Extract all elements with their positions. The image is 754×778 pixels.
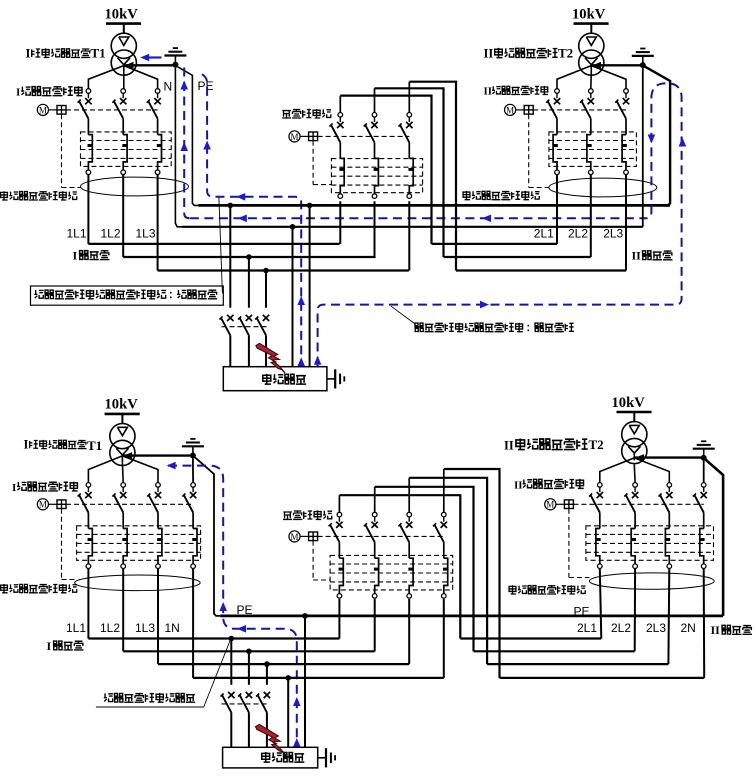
transformer T1 LV winding [111, 50, 136, 75]
label bus tie breaker bottom [283, 510, 332, 519]
wire tie b pole2 to bus [374, 599, 376, 651]
dashed linkage QF1 [66, 109, 158, 111]
wire load L2 bottom [248, 651, 250, 685]
svg-text:M: M [506, 105, 514, 115]
load breaker pole 3 [255, 315, 269, 367]
dashed aux tie to CT [313, 141, 331, 185]
wire fan T2 mid [590, 72, 593, 89]
wire load PE [309, 205, 311, 366]
bus 2L2 bottom [474, 650, 635, 652]
HV stub T1 bottom [121, 414, 123, 424]
blue arrow up PE path [203, 141, 211, 150]
tap dot load N bottom [285, 675, 291, 681]
transformer T1 bottom LV winding [110, 440, 135, 465]
blue arrow up first path load 1 [297, 296, 305, 305]
ground electrode T2 bottom [693, 441, 715, 461]
label 2N bottom [681, 621, 696, 635]
wire QF2 pole3 to bus 2L3 [625, 175, 627, 271]
blue arrow up PE riser bottom [219, 602, 227, 611]
10kV source label T2 bottom [612, 395, 646, 411]
tap dot load N [290, 224, 296, 230]
label II section transformer T2 bottom [504, 437, 604, 453]
wire T2 N drop [642, 68, 644, 227]
ground fault CT ellipse section I [81, 177, 189, 196]
HV stub T1 [123, 24, 125, 34]
svg-text:I: I [47, 639, 52, 653]
wire QF1b pole3 to bus [157, 569, 159, 665]
wire fan T1 right [124, 66, 158, 89]
HV stub T2 bottom [633, 412, 635, 422]
wire load L1 [229, 205, 231, 307]
tie b breaker pole 3 [398, 512, 413, 598]
label 1L3 [136, 226, 156, 240]
tap dot load L3 bottom [264, 661, 270, 667]
svg-text:M: M [290, 532, 298, 542]
svg-text:2L1: 2L1 [534, 226, 554, 240]
tie b top link 1 [339, 495, 460, 638]
svg-text:I: I [26, 46, 31, 60]
load breaker bottom pole 2 [238, 692, 252, 747]
motor operator M tie [289, 131, 318, 142]
breaker QF2b pole N [693, 483, 707, 569]
black arrow into T1 star [125, 62, 134, 69]
label 2L3 [603, 226, 623, 240]
blue arrow up bottom load 1 [293, 697, 301, 706]
bus 1N bottom [193, 677, 444, 679]
svg-text:II: II [504, 438, 514, 452]
svg-text:II: II [514, 479, 523, 491]
bus 1L2 bottom [123, 650, 375, 652]
label ground fault detection left-top [1, 191, 78, 200]
label I section bus [73, 249, 110, 263]
load breaker bottom pole 1 [221, 692, 235, 747]
tie top link 1 [340, 96, 431, 244]
wire T1b star to ground [122, 454, 190, 456]
blue arrow up second path load [314, 356, 322, 365]
tie b breaker pole 1 [329, 512, 344, 598]
svg-text:T2: T2 [558, 46, 573, 61]
blue path bottom via PE [168, 466, 297, 747]
breaker QF2b pole 3 [659, 483, 673, 569]
label PE bottom left [237, 603, 253, 617]
wire PE riser bottom left [194, 457, 220, 616]
tie b pole 4 riser [443, 469, 445, 512]
label PE top [198, 79, 214, 93]
wire fan T2b right [634, 458, 669, 483]
tap dot load L2 bottom [246, 649, 252, 655]
wire T2 PE drop [644, 66, 670, 205]
wire load L3 [265, 271, 267, 308]
wire T2b star to ground [634, 456, 701, 458]
dashed linkage tie [318, 135, 410, 137]
blue arrow up T2 riser [679, 138, 687, 147]
blue path first (normal) via PE riser [202, 74, 301, 366]
label 1L1 bottom [66, 621, 86, 635]
wire QF1b pole2 to bus [122, 569, 124, 652]
tie pole 1 riser [339, 96, 341, 113]
load equipment box bottom [223, 747, 318, 768]
note box first path [31, 286, 224, 305]
svg-text:II: II [632, 249, 642, 263]
leader first path note [219, 198, 223, 294]
black arrow into T1b star [124, 452, 133, 459]
blue path second via ground grid [318, 83, 682, 366]
bus 2L1 bottom [460, 637, 601, 639]
wire load N bottom [287, 678, 289, 747]
dashed linkage QF1b [66, 503, 193, 505]
label II section incoming breaker [484, 85, 548, 97]
transformer T1 HV winding [111, 33, 136, 58]
HV stub T2 [590, 24, 592, 34]
note second path [414, 323, 574, 332]
ground fault CT ellipse I bottom [75, 575, 201, 591]
ground fault CT ellipse section II [549, 178, 657, 197]
breaker QF1 pole 1 [78, 89, 93, 175]
bus 2L3 bottom [487, 663, 668, 665]
load ground [327, 369, 344, 388]
svg-text:10kV: 10kV [572, 6, 606, 22]
breaker QF1b pole 3 [147, 483, 162, 569]
load breaker bottom pole 3 [256, 692, 270, 747]
breaker QF2 pole 1 [546, 89, 560, 175]
svg-text:1L3: 1L3 [136, 226, 156, 240]
wire QF1b pole1 to bus [87, 569, 89, 639]
fault bolt bottom [255, 724, 286, 755]
svg-text:M: M [39, 500, 47, 510]
svg-text:2L2: 2L2 [611, 621, 631, 635]
label 2L3 bottom [646, 621, 666, 635]
wire QF2b pole1 to bus [600, 569, 602, 639]
wire load L1 bottom [230, 639, 232, 685]
svg-text:1L1: 1L1 [67, 226, 87, 240]
CT box tie bottom [330, 555, 453, 590]
svg-text:N: N [164, 79, 173, 93]
label I section bus bottom [47, 639, 84, 653]
svg-text:10kV: 10kV [105, 6, 139, 22]
label 2L1 [534, 226, 554, 240]
blue arrow up bottom load 2 [293, 738, 301, 747]
svg-text:2N: 2N [681, 621, 696, 635]
motor operator M QF1 [37, 104, 66, 115]
svg-text:II: II [711, 623, 721, 637]
svg-text:I: I [12, 482, 16, 494]
wire tie pole1 to bus 1L1 [339, 201, 341, 244]
dashed linkage QF2 [533, 109, 626, 111]
dashed aux QF2b to CT [569, 509, 590, 578]
svg-text:I: I [73, 249, 78, 263]
tap dot load L1 bottom [229, 636, 235, 642]
wire load L3 bottom [266, 664, 268, 685]
tap dot load PE [307, 203, 313, 209]
tap dot load PE bottom [302, 613, 308, 619]
svg-text:2L3: 2L3 [646, 621, 666, 635]
breaker QF1b pole N [182, 483, 197, 569]
wire fan T2 right [591, 66, 626, 89]
10kV source label T1 bottom [105, 397, 139, 413]
wire QF1b poleN to bus [192, 569, 194, 678]
bus PE top diagram [199, 204, 671, 207]
CT box section II [549, 132, 637, 167]
svg-text:I: I [16, 87, 20, 99]
load breaker pole 2 [238, 315, 252, 367]
label 1L1 [67, 226, 87, 240]
wire tie b pole4 to bus [443, 599, 445, 678]
label I section incoming breaker bottom [12, 482, 78, 494]
wire fan T2b mid [633, 464, 636, 482]
svg-text:M: M [39, 105, 47, 115]
transformer T2 HV winding [579, 33, 604, 58]
label II section bus bottom [711, 623, 752, 637]
dashed aux tie bottom to CT [313, 541, 330, 580]
wire fan T1 left [88, 66, 123, 89]
wire T1b neutral pole feed [192, 459, 194, 483]
label load equipment [263, 374, 306, 384]
tap dot load L1 [228, 203, 234, 209]
blue arrow up first path load 2 [297, 357, 305, 366]
breaker QF1b pole 2 [112, 483, 127, 569]
breaker QF2b pole 1 [589, 483, 603, 569]
label 2L2 [568, 226, 588, 240]
load breaker pole 1 [220, 315, 234, 367]
bus 2N bottom [500, 677, 705, 679]
wire tie b pole1 to bus [338, 599, 340, 639]
label I section incoming breaker [16, 86, 82, 98]
tap dot load L3 [263, 268, 269, 274]
bus PE bottom [220, 615, 723, 618]
tie b top link 3 [409, 478, 487, 664]
wire QF1 pole1 to bus 1L1 [87, 175, 89, 244]
label II section transformer T2 [484, 46, 574, 61]
breaker QF2 pole 2 [580, 89, 594, 175]
10kV bus bar T1 bottom [105, 413, 140, 416]
blue horizontal second collector [190, 217, 646, 219]
transformer T2 bottom LV winding [622, 438, 647, 463]
leader second path note [391, 306, 415, 323]
wire fan T1b right [122, 456, 158, 483]
breaker QF1 pole 2 [112, 89, 127, 175]
label II section bus top [632, 249, 673, 263]
svg-text:1L1: 1L1 [66, 621, 86, 635]
motor operator M QF1b [37, 499, 66, 510]
tie pole 3 riser [408, 82, 410, 113]
breaker QF1b pole 1 [78, 483, 93, 569]
svg-text:PE: PE [574, 605, 590, 619]
tie breaker pole 2 [364, 113, 379, 199]
tie b top link 4 [444, 469, 500, 678]
motor operator M tie bottom [289, 531, 318, 542]
bus 2L3 [456, 269, 626, 271]
label N [164, 79, 173, 93]
10kV bus bar T1 [106, 22, 141, 25]
blue arrow left collector 1 [238, 215, 247, 223]
tie b pole 3 riser [408, 478, 410, 513]
tie pole 2 riser [374, 88, 376, 112]
label PE bottom right [574, 605, 590, 619]
ground electrode T2 [632, 49, 654, 69]
wire tie b pole3 to bus [408, 599, 410, 664]
bus N top diagram [182, 226, 643, 228]
svg-text:1L2: 1L2 [101, 226, 121, 240]
label II section incoming breaker bottom [514, 479, 584, 491]
CT box section I [81, 132, 172, 167]
wire QF2 pole1 to bus 2L1 [556, 175, 558, 244]
ground electrode T1 [164, 48, 186, 68]
svg-text:T1: T1 [91, 45, 106, 60]
bus 1L3 bottom [158, 663, 409, 665]
tie b breaker pole 4 [433, 512, 448, 598]
svg-text:M: M [546, 500, 554, 510]
tie breaker pole 3 [399, 113, 414, 199]
blue arrow up N return 2 [180, 142, 188, 151]
tie b breaker pole 2 [364, 512, 379, 598]
CT box section II bottom [586, 526, 714, 561]
motor operator M QF2 [505, 104, 534, 115]
wire tie pole3 to bus 1L3 [408, 201, 410, 270]
blue path N return vertical [184, 68, 194, 219]
wire PE conductor [177, 66, 199, 205]
dashed linkage load breaker [222, 326, 268, 328]
blue arrow toward T1b star [167, 462, 176, 470]
tap dot load L2 [246, 254, 252, 260]
svg-text:1L3: 1L3 [135, 621, 155, 635]
blue arrow left first path [236, 193, 245, 201]
tie b pole 1 riser [338, 495, 340, 512]
blue arrow left bottom collector [237, 625, 246, 633]
blue arrow left collector 2 [482, 215, 491, 223]
tie breaker pole 1 [330, 113, 345, 199]
CT box tie [331, 159, 422, 193]
breaker QF2 pole 3 [615, 89, 629, 175]
tie top link 2 [375, 88, 444, 257]
blue arrow right second path [480, 301, 489, 309]
svg-text:T2: T2 [589, 437, 604, 452]
wire QF2b pole2 to bus [634, 569, 636, 652]
svg-text:2L2: 2L2 [568, 226, 588, 240]
dashed aux QF1 to CT [62, 114, 81, 187]
10kV source label T2 [572, 6, 606, 22]
10kV bus bar T2 [574, 22, 609, 25]
dashed linkage tie bottom [318, 535, 444, 537]
label I section transformer T1 [26, 45, 106, 60]
blue arrow toward T1 star [140, 54, 161, 62]
svg-text:T1: T1 [87, 438, 102, 453]
wire fan T1b mid [121, 462, 124, 482]
label ground fault detection right-top [463, 191, 540, 200]
label 1L2 [101, 226, 121, 240]
breaker QF2b pole 2 [624, 483, 638, 569]
bus 1L1 [88, 243, 339, 245]
svg-text:I: I [24, 438, 29, 452]
blue arrow down T2 return [648, 135, 656, 144]
label 2L2 bottom [611, 621, 631, 635]
fault bolt top [256, 343, 285, 373]
blue arrow up N return 1 [180, 81, 188, 90]
bus 2L1 [432, 243, 558, 245]
tie b pole 2 riser [374, 487, 376, 513]
transformer T2 LV winding [579, 50, 604, 75]
svg-text:PE: PE [198, 79, 214, 93]
svg-text:10kV: 10kV [612, 395, 646, 411]
wire QF1 pole3 to bus 1L3 [157, 175, 159, 271]
wire load L2 [248, 257, 250, 308]
load equipment box [223, 367, 327, 391]
10kV source label T1 [105, 6, 139, 22]
bus 1L1 bottom [88, 637, 339, 639]
label 2L1 bottom [577, 621, 597, 635]
CT box section I bottom [77, 526, 201, 561]
wire T2 star to ground [591, 64, 640, 66]
bus 1L3 [158, 269, 409, 271]
transformer T2 bottom HV winding [622, 422, 647, 447]
wire QF1 pole2 to bus 1L2 [122, 175, 124, 257]
black arrow into T2b star [636, 454, 645, 461]
breaker QF1 pole 3 [147, 89, 162, 175]
svg-text:2L3: 2L3 [603, 226, 623, 240]
label 1L3 bottom [135, 621, 155, 635]
wire T2b neutral pole feed [703, 461, 705, 483]
svg-text:II: II [484, 47, 494, 61]
svg-text:10kV: 10kV [105, 397, 139, 413]
wire tie pole2 to bus 1L2 [374, 201, 376, 257]
label load equipment bottom [262, 752, 305, 762]
label ground fault detection right-bottom [509, 585, 586, 594]
transformer T1 bottom HV winding [110, 424, 135, 449]
wire fan T1 mid [123, 72, 125, 89]
svg-text:1L2: 1L2 [100, 621, 120, 635]
black arrow into T2 star [593, 62, 602, 69]
svg-text:M: M [290, 132, 298, 142]
leader fault path note bottom [204, 640, 231, 707]
wire fan T2 left [557, 66, 591, 89]
wire QF2b pole3 to bus [667, 569, 670, 665]
bus 1L2 [123, 256, 375, 258]
wire load PE bottom [304, 616, 306, 747]
wire T1 star to ground [124, 64, 173, 66]
dashed aux QF1b to CT [62, 509, 76, 580]
wire QF2b poleN to bus [703, 569, 706, 678]
dashed linkage load breaker bottom [222, 703, 269, 705]
wire fan T1b left [88, 456, 122, 483]
wire load N [292, 227, 294, 367]
label bus tie breaker top [282, 109, 331, 118]
dashed linkage QF2b [573, 503, 703, 505]
ground fault CT ellipse II bottom [589, 573, 714, 589]
label ground fault detection left-bottom [1, 584, 78, 593]
label 1N bottom [165, 621, 180, 635]
ground electrode T1 bottom [182, 439, 204, 459]
tie top link 3 [409, 82, 456, 271]
10kV bus bar T2 bottom [617, 411, 652, 414]
wire PE riser bottom right [705, 459, 723, 616]
motor operator M QF2b [545, 499, 574, 510]
wire QF2 pole2 to bus 2L2 [590, 175, 592, 257]
dashed aux QF2 to CT [529, 114, 549, 187]
wire N conductor [175, 68, 181, 227]
label I section transformer T1 bottom [24, 438, 103, 453]
svg-text:II: II [484, 85, 493, 97]
svg-text:1N: 1N [165, 621, 180, 635]
wire fan T2b left [600, 458, 635, 483]
label 1L2 bottom [100, 621, 120, 635]
svg-text:2L1: 2L1 [577, 621, 597, 635]
bus 2L2 [444, 256, 591, 258]
tie b top link 2 [375, 487, 474, 652]
note box fault path bottom [96, 693, 204, 707]
load ground bottom [318, 748, 335, 767]
